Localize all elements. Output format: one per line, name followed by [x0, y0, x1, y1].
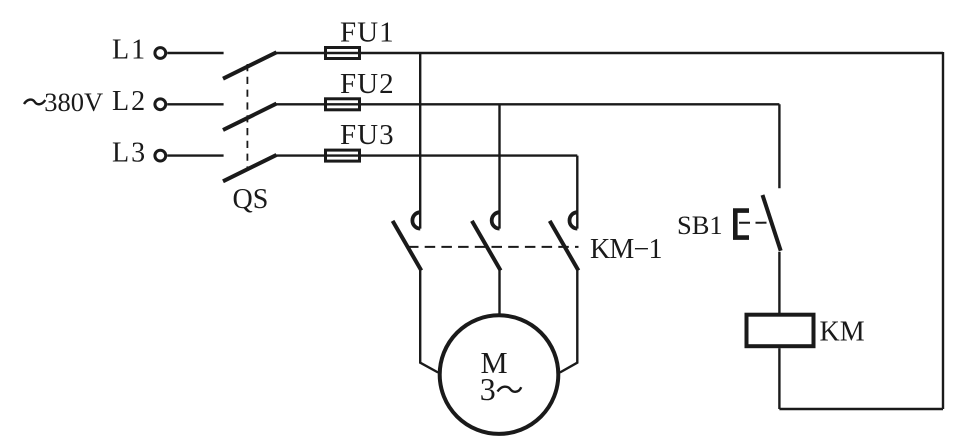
contactor KM-1 blade pole 3: [550, 221, 579, 271]
label ~380V tilde: [24, 100, 45, 105]
wire coil KM to bottom: [778, 348, 780, 409]
terminal L1: [155, 48, 166, 59]
svg-text:SB1: SB1: [677, 210, 723, 240]
terminal L3: [155, 150, 166, 161]
switch QS blade pole 2: [223, 104, 277, 130]
wire L2 terminal to QS: [167, 103, 223, 105]
contactor KM-1 linkage dashed: [408, 246, 579, 248]
switch QS linkage dashed: [246, 64, 248, 170]
wire vertical drop phase 1 to contact: [419, 53, 421, 229]
wire FU2 to control tap (L2 phase): [360, 103, 780, 105]
wire vertical drop phase 3 to contact: [576, 156, 578, 229]
fuse FU1: [326, 48, 360, 59]
svg-text:L1: L1: [112, 35, 147, 66]
wire bottom return: [779, 408, 943, 410]
wire QS to FU1: [276, 52, 326, 54]
svg-text:L2: L2: [112, 86, 147, 117]
wire L1 terminal to QS: [167, 52, 223, 54]
wire through FU1: [326, 52, 360, 54]
svg-text:KM: KM: [820, 317, 865, 348]
svg-text:380V: 380V: [44, 87, 103, 117]
wire SB1 to coil KM: [778, 252, 780, 315]
wire QS to FU3: [276, 154, 326, 156]
switch QS blade pole 3: [223, 155, 277, 181]
wire L3 terminal to QS: [167, 154, 223, 156]
wire vertical drop phase 2 to contact: [498, 104, 500, 228]
wire FU3 to corner (L3 phase): [360, 154, 578, 156]
contactor KM-1 fixed contact arc pole 1: [412, 212, 420, 228]
svg-text:FU1: FU1: [340, 17, 395, 49]
switch QS blade pole 1: [223, 52, 277, 78]
wire contact 2 to motor: [498, 271, 500, 314]
contactor KM-1 blade pole 2: [472, 221, 501, 271]
svg-text:KM−1: KM−1: [590, 234, 662, 265]
pushbutton SB1 blade: [763, 195, 781, 251]
svg-text:3: 3: [480, 371, 496, 407]
svg-text:QS: QS: [233, 184, 269, 215]
motor M circle: [440, 315, 559, 434]
contactor KM-1 fixed contact arc pole 2: [492, 212, 500, 228]
fuse FU2: [326, 99, 360, 110]
svg-text:FU2: FU2: [340, 68, 395, 100]
contactor KM-1 blade pole 1: [393, 221, 422, 271]
terminal L2: [155, 99, 166, 110]
wire through FU3: [326, 154, 360, 156]
wire through FU2: [326, 103, 360, 105]
wire FU1 to right corner (L1 phase): [360, 52, 944, 54]
pushbutton SB1 actuator bracket: [735, 211, 749, 238]
wire contact 1 to motor: [420, 271, 438, 373]
wire L2 tap down to SB1: [778, 104, 780, 188]
coil KM: [747, 315, 814, 347]
fuse FU3: [326, 150, 360, 161]
wire right side return: [942, 52, 944, 409]
svg-text:FU3: FU3: [340, 119, 395, 151]
wire contact 3 to motor: [560, 271, 577, 373]
pushbutton SB1 linkage dashed: [739, 222, 769, 224]
wire QS to FU2: [276, 103, 326, 105]
motor label tilde: [498, 387, 522, 392]
svg-text:L3: L3: [112, 137, 147, 168]
contactor KM-1 fixed contact arc pole 3: [569, 212, 577, 228]
